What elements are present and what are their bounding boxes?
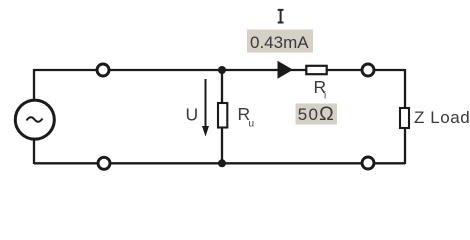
current direction arrow I [278, 61, 294, 79]
resistor Z Load body [400, 108, 409, 128]
resistor Ri body [306, 66, 326, 74]
value box 0.43mA [247, 30, 313, 53]
value box 50ohm [296, 104, 338, 125]
terminal bottom-left [98, 157, 110, 169]
node junction bottom [218, 159, 226, 167]
svg-text:u: u [249, 119, 255, 130]
terminal top-left [97, 64, 109, 76]
source U1 (AC) [15, 100, 54, 139]
wire bottom [34, 162, 405, 164]
svg-text:50Ω: 50Ω [298, 103, 335, 125]
svg-text:i: i [324, 91, 326, 102]
wire right rail [404, 69, 406, 164]
resistor Ru body [218, 103, 227, 128]
svg-text:U: U [186, 104, 199, 124]
wire top [34, 69, 405, 71]
label I (serif capital drawn as path) [278, 9, 284, 24]
svg-text:Z Load: Z Load [414, 108, 470, 127]
voltage arrow U [202, 79, 209, 137]
svg-text:0.43mA: 0.43mA [250, 33, 309, 52]
wire middle branch [221, 70, 223, 163]
terminal top-right [362, 64, 374, 76]
node junction top [218, 66, 226, 74]
terminal bottom-right [362, 157, 374, 169]
wire left rail [33, 69, 35, 164]
